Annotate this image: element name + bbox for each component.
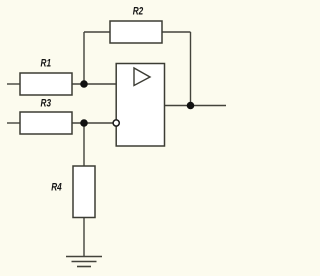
- wire op-amp output: [165, 105, 227, 107]
- resistor R3: [20, 112, 72, 134]
- resistor R4: [73, 166, 95, 218]
- resistor R2: [110, 21, 162, 43]
- node A junction dot: [80, 80, 88, 88]
- op-amp U1 triangle symbol: [134, 68, 150, 86]
- svg-text:R3: R3: [41, 98, 52, 110]
- wire input to R3: [7, 122, 20, 124]
- resistor R1: [20, 73, 72, 95]
- wire R2 right horizontal: [162, 31, 191, 33]
- wire R4 bottom to ground: [83, 218, 85, 257]
- svg-text:R2: R2: [133, 6, 144, 18]
- wire R1 output to op-amp noninverting input: [72, 83, 116, 85]
- node B junction dot: [80, 119, 88, 127]
- ground: [66, 257, 102, 267]
- wire node A to R2 left: [84, 31, 110, 33]
- wire R2 down to output node: [190, 32, 192, 106]
- op-amp U1 body: [116, 64, 164, 147]
- wire input to R1: [7, 83, 20, 85]
- output node junction dot: [187, 102, 195, 110]
- svg-text:R4: R4: [51, 182, 62, 194]
- wire feedback vertical from node A up: [83, 32, 85, 84]
- op-amp inverting input bubble: [113, 120, 119, 126]
- wire node B down to R4: [83, 123, 85, 166]
- wire R3 output to inverting bubble: [72, 122, 113, 124]
- svg-text:R1: R1: [41, 58, 52, 70]
